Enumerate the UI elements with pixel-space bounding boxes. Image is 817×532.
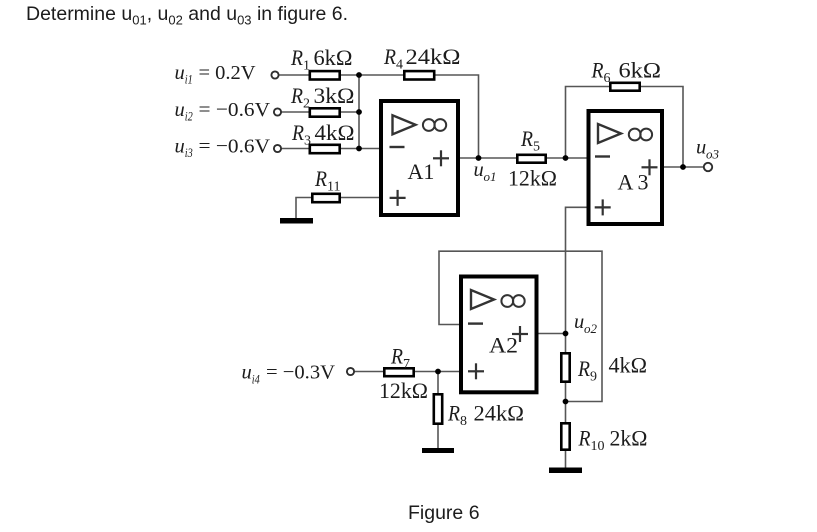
svg-text:R: R (291, 120, 304, 145)
svg-text:u: u (696, 137, 706, 159)
svg-text:9: 9 (590, 370, 597, 385)
svg-text:A: A (618, 170, 634, 195)
svg-text:Figure 6: Figure 6 (408, 502, 480, 524)
svg-text:R: R (520, 126, 533, 151)
svg-text:24kΩ: 24kΩ (406, 44, 461, 69)
svg-text:u: u (175, 99, 185, 121)
svg-text:i1: i1 (185, 72, 193, 87)
svg-text:3: 3 (304, 134, 311, 149)
svg-text:6kΩ: 6kΩ (619, 58, 662, 83)
svg-text:4: 4 (396, 58, 403, 73)
svg-text:= 0.2V: = 0.2V (199, 62, 256, 84)
svg-text:8: 8 (460, 414, 467, 429)
svg-text:4kΩ: 4kΩ (609, 353, 648, 378)
svg-text:u: u (175, 136, 185, 158)
svg-text:i4: i4 (252, 371, 260, 386)
svg-text:Determine u01, u02 and u03 in: Determine u01, u02 and u03 in figure 6. (26, 3, 348, 28)
svg-text:3kΩ: 3kΩ (314, 83, 355, 108)
svg-text:A1: A1 (408, 159, 435, 184)
svg-text:= −0.6V: = −0.6V (199, 136, 271, 158)
svg-text:12kΩ: 12kΩ (508, 166, 557, 191)
svg-text:6: 6 (604, 71, 611, 86)
svg-text:2: 2 (303, 97, 310, 112)
svg-text:R: R (383, 44, 396, 69)
svg-text:u: u (242, 362, 252, 384)
svg-text:1: 1 (303, 59, 310, 74)
svg-text:3: 3 (638, 170, 649, 195)
svg-text:R: R (314, 166, 327, 191)
svg-text:i3: i3 (185, 145, 193, 160)
svg-text:5: 5 (533, 140, 540, 155)
svg-text:24kΩ: 24kΩ (474, 401, 525, 426)
svg-text:= −0.6V: = −0.6V (199, 99, 271, 121)
svg-text:11: 11 (327, 180, 340, 195)
svg-text:R: R (591, 58, 604, 83)
svg-text:i2: i2 (185, 109, 193, 124)
svg-text:4kΩ: 4kΩ (315, 120, 355, 145)
svg-text:o3: o3 (706, 147, 720, 162)
svg-text:= −0.3V: = −0.3V (266, 362, 335, 384)
svg-text:o1: o1 (484, 169, 497, 184)
svg-text:u: u (175, 62, 185, 84)
svg-text:10: 10 (591, 439, 605, 454)
svg-text:R: R (290, 83, 303, 108)
svg-text:R: R (290, 45, 303, 70)
svg-text:u: u (474, 159, 484, 181)
svg-text:o2: o2 (584, 321, 598, 336)
svg-text:R: R (578, 426, 591, 451)
svg-text:u: u (574, 311, 584, 333)
svg-text:2kΩ: 2kΩ (610, 426, 648, 451)
svg-text:R: R (447, 401, 460, 426)
svg-text:6kΩ: 6kΩ (314, 45, 353, 70)
svg-text:12kΩ: 12kΩ (379, 378, 428, 403)
svg-text:7: 7 (403, 357, 410, 372)
svg-text:A2: A2 (489, 333, 518, 358)
svg-text:R: R (577, 356, 590, 381)
svg-text:R: R (390, 344, 403, 369)
